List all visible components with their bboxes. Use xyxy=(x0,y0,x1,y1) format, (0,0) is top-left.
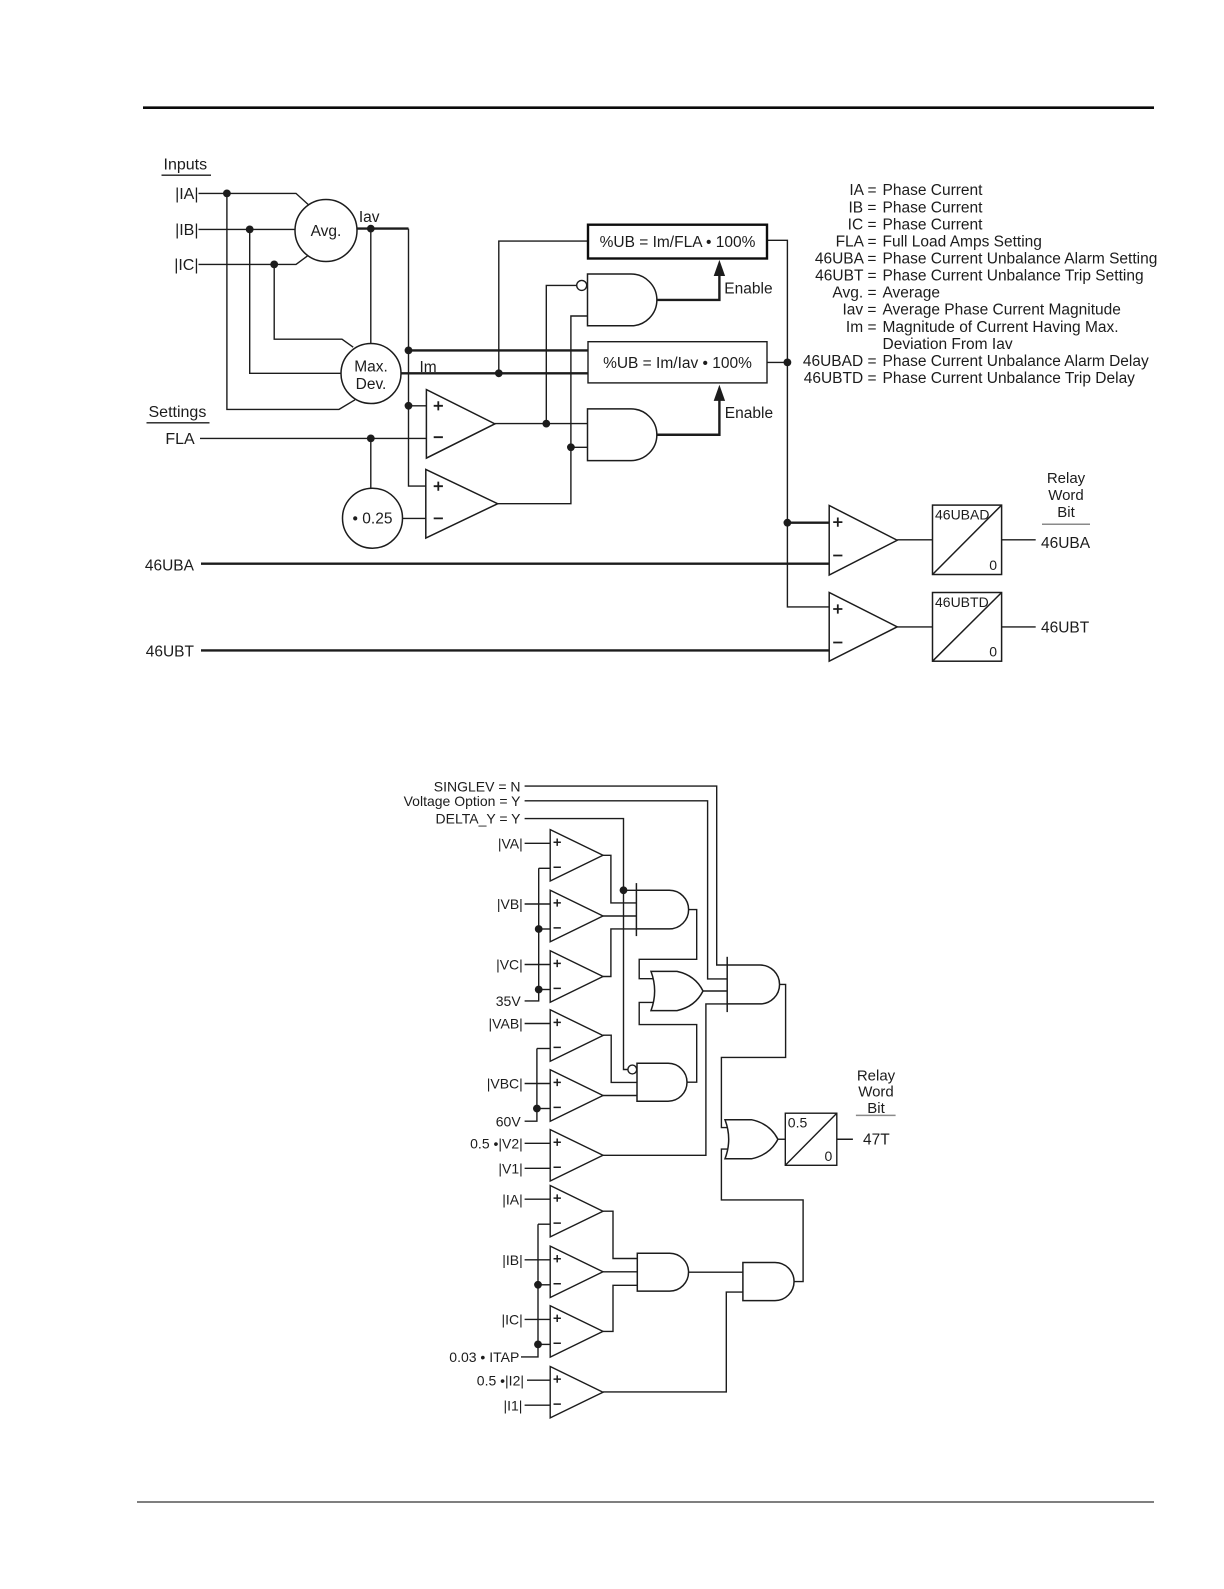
svg-text:46UBT: 46UBT xyxy=(1041,619,1090,636)
box %UB = Im/Iav xyxy=(588,342,767,383)
top rule xyxy=(143,106,1154,109)
comparator 0.5V2 vs V1 xyxy=(550,1130,603,1181)
node FLA tap xyxy=(367,435,375,443)
wire |IA| to Avg xyxy=(199,193,309,204)
wire 0.5V2 input xyxy=(525,1142,551,1144)
wire G6 output to OR G7 xyxy=(721,984,785,1127)
node |IB| tap xyxy=(246,226,254,234)
wire VB comparator to AND G4 xyxy=(603,915,636,917)
svg-text:Bit: Bit xyxy=(867,1100,885,1117)
svg-text:Phase Current: Phase Current xyxy=(883,182,984,199)
svg-text:0.03 • ITAP: 0.03 • ITAP xyxy=(449,1349,519,1365)
OR gate G5 xyxy=(651,971,703,1010)
wire 35V to VC - xyxy=(539,989,551,991)
comparator U2 Iav vs 0.25FLA xyxy=(426,469,498,538)
wire |I1| input xyxy=(525,1404,551,1406)
wire |IA| to Max.Dev xyxy=(227,193,355,409)
wire |VC| input xyxy=(525,964,551,966)
wire OR G5 output to AND G6 xyxy=(703,990,727,992)
wire %UB to comparator U3 + xyxy=(787,522,829,524)
svg-text:|I1|: |I1| xyxy=(503,1397,522,1413)
comparator VAB vs 60V xyxy=(550,1010,603,1061)
wire G8 output to AND G9 xyxy=(689,1271,743,1273)
node ITAP tap IB xyxy=(534,1281,542,1289)
svg-text:Im: Im xyxy=(420,359,437,376)
OR gate G7 xyxy=(725,1120,778,1159)
svg-text:Inputs: Inputs xyxy=(164,157,208,174)
wire Voltage Option to AND G6 xyxy=(525,801,728,979)
svg-text:Bit: Bit xyxy=(1057,504,1075,521)
node U1 output tap xyxy=(542,420,550,428)
svg-text:35V: 35V xyxy=(496,993,522,1009)
wire OR G7 to timer xyxy=(778,1138,785,1140)
comparator VA vs 35V xyxy=(550,830,603,881)
svg-text:46UBT =: 46UBT = xyxy=(815,268,876,285)
svg-text:|IC|: |IC| xyxy=(174,257,198,274)
svg-text:Phase Current Unbalance Alarm: Phase Current Unbalance Alarm Delay xyxy=(883,353,1149,370)
max deviation circle Max. Dev. xyxy=(341,344,401,404)
wire ITAP to IB - xyxy=(538,1284,550,1286)
comparator VC vs 35V xyxy=(550,951,603,1002)
AND gate G9 xyxy=(743,1263,794,1301)
inversion bubble G3 xyxy=(628,1065,637,1074)
svg-text:Im =: Im = xyxy=(846,319,877,336)
wire U2 output to AND G2 xyxy=(571,446,588,448)
wire |IC| to Avg xyxy=(199,255,309,264)
wire U3 output to timer 46UBAD xyxy=(897,539,932,541)
wire 0.25FLA to comparator U2 - xyxy=(403,517,426,519)
svg-text:0.5 •|I2|: 0.5 •|I2| xyxy=(477,1372,524,1388)
wire FLA to multiplier 0.25 xyxy=(370,438,372,488)
svg-text:Iav: Iav xyxy=(359,209,380,226)
wire |IA| input lower xyxy=(525,1198,551,1200)
arrowhead Enable 1 xyxy=(714,260,725,276)
wire Iav into %UB=Im/Iav box xyxy=(409,349,589,351)
svg-text:Average Phase Current Magnitud: Average Phase Current Magnitude xyxy=(883,302,1121,319)
svg-text:Phase Current: Phase Current xyxy=(883,199,984,216)
wire |IC| to Max.Dev xyxy=(274,264,353,347)
bottom rule xyxy=(137,1501,1154,1503)
svg-text:Max.: Max. xyxy=(354,359,388,376)
svg-text:%UB = Im/Iav • 100%: %UB = Im/Iav • 100% xyxy=(603,355,752,372)
svg-text:0.5: 0.5 xyxy=(788,1115,808,1131)
comparator 0.5I2 vs I1 xyxy=(550,1367,603,1418)
wire timer output 47T xyxy=(837,1138,853,1140)
svg-text:46UBA: 46UBA xyxy=(1041,535,1091,552)
inversion bubble G1 xyxy=(577,280,587,290)
svg-text:Voltage Option = Y: Voltage Option = Y xyxy=(404,793,522,809)
wire IC comparator to AND G8 xyxy=(603,1285,637,1331)
wire |IC| input lower xyxy=(525,1318,551,1320)
wire |IB| to Avg xyxy=(199,228,297,230)
wire |VAB| input xyxy=(525,1023,551,1025)
wire 35V to VA - xyxy=(539,867,551,869)
wire |VB| input xyxy=(525,903,551,905)
comparator VBC vs 60V xyxy=(550,1070,603,1121)
timer 46UBTD xyxy=(933,593,1002,662)
wire VA comparator to AND G4 xyxy=(603,855,636,903)
svg-text:0.5 •|V2|: 0.5 •|V2| xyxy=(470,1135,523,1151)
NAND gate G3 xyxy=(637,1063,687,1101)
wire Iav output xyxy=(357,227,409,229)
wire Iav bus down to comparator inputs xyxy=(409,229,427,487)
svg-text:SINGLEV = N: SINGLEV = N xyxy=(434,778,521,794)
wire 35V bus xyxy=(525,868,539,1001)
wire VBC comparator to NAND G3 xyxy=(603,1095,637,1097)
svg-text:Word: Word xyxy=(1048,487,1084,504)
wire VC comparator to AND G4 xyxy=(603,929,636,977)
node |IA| tap xyxy=(223,190,231,198)
svg-text:DELTA_Y = Y: DELTA_Y = Y xyxy=(436,811,522,827)
svg-text:Relay: Relay xyxy=(1047,470,1086,487)
svg-text:|VBC|: |VBC| xyxy=(487,1076,523,1092)
svg-text:|IB|: |IB| xyxy=(175,222,198,239)
comparator IA vs 0.03ITAP xyxy=(550,1186,603,1237)
wire 0.03 ITAP bus xyxy=(521,1224,538,1357)
svg-text:Iav =: Iav = xyxy=(842,302,876,319)
wire Iav to comparator U1 + xyxy=(409,405,427,407)
svg-text:FLA =: FLA = xyxy=(836,233,877,250)
wire IA comparator to AND G8 xyxy=(603,1211,637,1258)
timer 46UBAD xyxy=(933,505,1002,574)
wire ITAP to IA - xyxy=(538,1223,550,1225)
wire Im up into %UB=Im/FLA box xyxy=(499,241,588,373)
wire SINGLEV to AND G6 xyxy=(525,786,728,965)
AND gate G4 voltage low xyxy=(636,883,688,936)
wire relay word bit 46UBT xyxy=(1002,626,1036,628)
node Iav to U1 tap xyxy=(405,402,413,410)
wire U4 output to timer 46UBTD xyxy=(897,626,932,628)
wire relay word bit 46UBA xyxy=(1002,539,1036,541)
svg-text:• 0.25: • 0.25 xyxy=(353,511,393,528)
svg-text:0: 0 xyxy=(989,557,997,573)
svg-text:IA =: IA = xyxy=(849,182,876,199)
timer 0.5/0 for 47T xyxy=(785,1113,837,1165)
svg-text:46UBAD =: 46UBAD = xyxy=(803,353,877,370)
NAND gate G1 xyxy=(588,274,657,326)
wire |VA| input xyxy=(525,842,551,844)
wire comparator U1 output to AND G2 xyxy=(495,423,588,425)
svg-text:FLA: FLA xyxy=(165,431,195,448)
svg-text:Phase Current Unbalance Trip D: Phase Current Unbalance Trip Delay xyxy=(883,370,1136,387)
wire DELTA_Y into AND G4 xyxy=(624,889,637,891)
AND gate G8 currents xyxy=(637,1253,688,1291)
wire 0.5I2 input xyxy=(527,1379,550,1381)
svg-text:Full Load Amps Setting: Full Load Amps Setting xyxy=(883,233,1042,250)
svg-text:Enable: Enable xyxy=(724,280,772,297)
AND gate G2 xyxy=(588,409,657,461)
svg-text:Deviation From Iav: Deviation From Iav xyxy=(883,336,1013,353)
svg-text:Avg.: Avg. xyxy=(311,223,342,240)
svg-text:Dev.: Dev. xyxy=(356,376,387,393)
wire Im into %UB=Im/Iav box xyxy=(401,372,588,374)
svg-text:|VA|: |VA| xyxy=(498,835,523,851)
averager circle Avg. xyxy=(295,200,357,262)
wire 46UBA setting xyxy=(201,563,829,565)
node 35V tap VC xyxy=(535,986,543,994)
svg-text:%UB = Im/FLA • 100%: %UB = Im/FLA • 100% xyxy=(600,234,756,251)
svg-text:Word: Word xyxy=(858,1084,894,1101)
svg-text:46UBTD: 46UBTD xyxy=(935,594,989,610)
svg-text:Average: Average xyxy=(883,285,940,302)
svg-text:IC =: IC = xyxy=(848,216,877,233)
svg-text:46UBT: 46UBT xyxy=(146,644,195,661)
comparator U4 %UB vs 46UBT xyxy=(829,593,897,662)
wire G4 output to OR G5 xyxy=(639,910,697,979)
node Iav tap to Max.Dev xyxy=(367,225,375,233)
wire I2I1 comparator to AND G9 xyxy=(603,1292,743,1392)
svg-text:0: 0 xyxy=(825,1148,833,1164)
svg-text:60V: 60V xyxy=(496,1113,522,1129)
node |IC| tap xyxy=(270,261,278,269)
wire FLA xyxy=(200,437,426,439)
wire IB comparator to AND G8 xyxy=(603,1271,637,1273)
svg-text:46UBAD: 46UBAD xyxy=(935,507,989,523)
wire comparator U2 output to NAND G1 xyxy=(498,316,588,504)
wire G3 output to OR G5 xyxy=(639,1002,697,1082)
arrowhead Enable 2 xyxy=(714,385,725,401)
svg-text:|IC|: |IC| xyxy=(502,1312,523,1328)
svg-text:Phase Current Unbalance Alarm: Phase Current Unbalance Alarm Setting xyxy=(883,251,1158,268)
wire AND G2 output Enable xyxy=(657,400,719,435)
node %UB to U3 tap xyxy=(784,519,792,527)
svg-text:|V1|: |V1| xyxy=(498,1160,522,1176)
wire 46UBT setting xyxy=(201,649,829,651)
wire 60V to VBC - xyxy=(537,1108,550,1110)
svg-text:IB =: IB = xyxy=(848,199,876,216)
svg-text:46UBTD =: 46UBTD = xyxy=(804,370,877,387)
svg-text:46UBA: 46UBA xyxy=(145,557,195,574)
node Iav to box tap xyxy=(405,347,413,355)
box %UB = Im/FLA xyxy=(588,225,767,259)
wire %UB boxes output bus xyxy=(767,240,829,607)
wire VAB comparator to NAND G3 xyxy=(603,1035,637,1082)
node 60V tap VBC xyxy=(533,1105,541,1113)
wire |IB| to Max.Dev xyxy=(250,229,342,373)
wire NAND G1 output Enable xyxy=(657,275,720,300)
comparator IB vs 0.03ITAP xyxy=(550,1246,603,1297)
svg-text:Enable: Enable xyxy=(725,405,773,422)
node 35V tap VB xyxy=(535,925,543,933)
wire |IB| input lower xyxy=(525,1259,551,1261)
comparator U1 Iav vs FLA xyxy=(426,390,495,459)
node %UB output junction xyxy=(784,359,792,367)
wire G9 output to OR G7 xyxy=(721,1149,803,1281)
wire |VBC| input xyxy=(525,1083,551,1085)
node DELTA_Y tap to G4 xyxy=(620,886,628,894)
multiplier circle 0.25 xyxy=(343,488,403,548)
svg-text:|VC|: |VC| xyxy=(496,957,523,973)
wire |V1| input xyxy=(525,1167,551,1169)
wire %UB=Im/Iav output xyxy=(767,361,787,363)
comparator IC vs 0.03ITAP xyxy=(550,1306,603,1357)
svg-text:0: 0 xyxy=(989,644,997,660)
wire 60V to VAB - xyxy=(537,1048,550,1050)
wire 60V bus xyxy=(525,1049,537,1122)
wire DELTA_Y bus xyxy=(525,819,628,1070)
svg-text:|VB|: |VB| xyxy=(497,896,523,912)
wire 35V to VB - xyxy=(539,928,551,930)
svg-text:|IA|: |IA| xyxy=(175,186,198,203)
wire U1 output to NAND G1 inverted input xyxy=(546,285,576,423)
svg-text:Settings: Settings xyxy=(149,404,207,421)
node ITAP tap IC xyxy=(534,1341,542,1349)
svg-text:Phase Current Unbalance Trip S: Phase Current Unbalance Trip Setting xyxy=(883,268,1144,285)
svg-text:Relay: Relay xyxy=(857,1068,896,1085)
svg-text:47T: 47T xyxy=(863,1131,890,1148)
svg-text:46UBA =: 46UBA = xyxy=(815,251,877,268)
svg-text:Phase Current: Phase Current xyxy=(883,216,984,233)
node U2 output tap xyxy=(567,443,575,451)
wire ITAP to IC - xyxy=(538,1343,550,1345)
wire Iav to Max.Dev xyxy=(370,229,372,344)
comparator VB vs 35V xyxy=(550,890,603,941)
node Im tap xyxy=(495,369,503,377)
comparator U3 %UB vs 46UBA xyxy=(829,506,897,576)
svg-text:Magnitude of Current Having Ma: Magnitude of Current Having Max. xyxy=(883,319,1119,336)
svg-text:Avg. =: Avg. = xyxy=(832,285,876,302)
wire V2V1 comparator to AND G6 xyxy=(603,1004,727,1155)
svg-text:|IA|: |IA| xyxy=(502,1191,523,1207)
svg-text:|VAB|: |VAB| xyxy=(489,1016,523,1032)
svg-text:|IB|: |IB| xyxy=(502,1252,523,1268)
AND gate G6 main xyxy=(727,957,779,1012)
